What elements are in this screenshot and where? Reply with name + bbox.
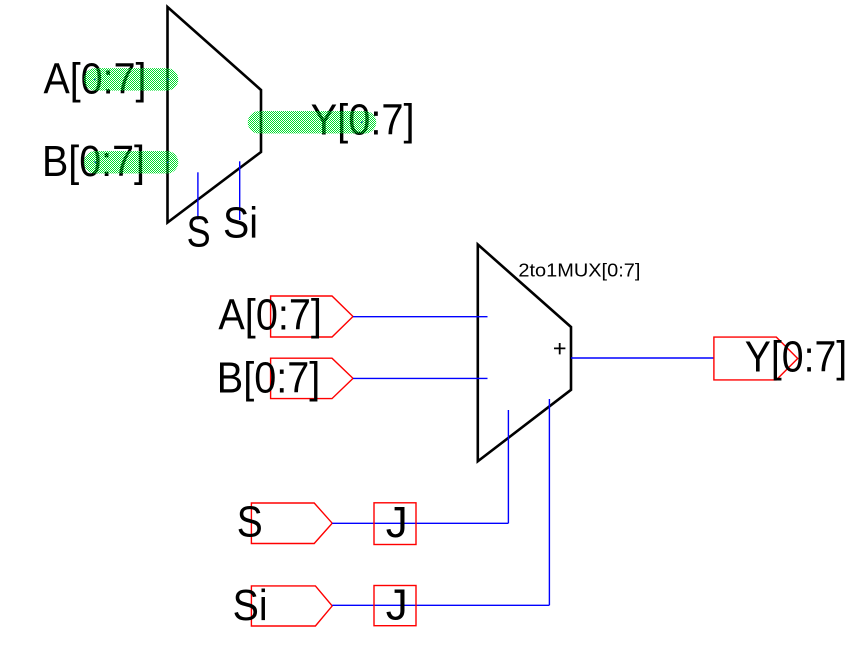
pin dot A left: [94, 78, 96, 80]
svg-text:S: S: [237, 498, 263, 547]
svg-text:A[0:7]: A[0:7]: [218, 290, 322, 339]
mux U1 pin stub S: [197, 172, 199, 219]
pin dot A right: [167, 78, 169, 80]
wire Y output: [571, 357, 714, 359]
pin dot B right: [167, 161, 169, 163]
output port Y[0:7]: [714, 337, 798, 380]
input port A[0:7]: [271, 296, 353, 337]
svg-text:Si: Si: [233, 581, 268, 630]
wire Si vertical to mux: [548, 399, 550, 605]
wire B to mux: [353, 377, 488, 379]
mux U1 pin stub Si: [239, 161, 241, 220]
plus symbol inside mux U2: [554, 343, 565, 354]
wire Si to J: [332, 604, 549, 606]
svg-text:J: J: [386, 581, 408, 630]
input port S: [251, 503, 332, 544]
wire S to J: [332, 522, 508, 524]
bus tap J (S): [374, 503, 416, 545]
svg-text:B[0:7]: B[0:7]: [217, 354, 320, 403]
highlight stroke B (green marker): [95, 151, 167, 174]
input port Si: [251, 586, 332, 626]
bus tap J (Si): [374, 586, 416, 626]
input port B[0:7]: [271, 358, 353, 398]
pin dot B left: [94, 161, 96, 163]
pin dot Y: [361, 121, 363, 123]
svg-text:S: S: [187, 208, 211, 257]
mux U2 (bottom instance): [478, 245, 571, 462]
mux U1 (top symbol): [168, 7, 262, 223]
svg-text:Si: Si: [223, 199, 258, 248]
svg-text:2to1MUX[0:7]: 2to1MUX[0:7]: [518, 260, 640, 280]
highlight stroke Y (green marker): [259, 111, 365, 134]
wire A to mux: [353, 316, 488, 318]
wire S vertical to mux: [507, 410, 509, 523]
svg-text:Y[0:7]: Y[0:7]: [745, 333, 848, 382]
svg-text:J: J: [386, 498, 408, 547]
highlight stroke A (green marker): [95, 68, 167, 91]
